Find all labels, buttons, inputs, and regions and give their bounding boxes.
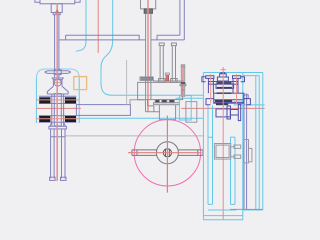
long cyan section line y=95.3 — [112, 94, 203, 96]
channel riser outer — [183, 0, 185, 40]
actuator stem lines — [146, 13, 151, 99]
hub circle — [156, 142, 178, 164]
post nut block 1 — [159, 79, 166, 83]
lower square box — [216, 109, 230, 117]
purple long vertical pair — [244, 93, 247, 209]
cyan bottom rail 1 — [208, 209, 237, 211]
right assembly machinery — [202, 73, 251, 121]
stem below hub — [55, 75, 59, 78]
side bolt x=183 (red) — [180, 65, 186, 98]
flywheel outer circle — [134, 120, 200, 186]
channel top line left — [66, 35, 140, 40]
body neck flange — [47, 93, 68, 95]
faint construction vertical x=126.6 — [126, 60, 128, 105]
bonnet neck — [53, 80, 62, 87]
cyan break-line spline A (x=86) — [76, 0, 86, 51]
flange rail under top flanges — [39, 103, 77, 105]
bolt head — [220, 74, 227, 77]
left stair bracket — [138, 100, 160, 112]
channel riser inner — [179, 0, 181, 35]
packing ball circle — [54, 79, 61, 86]
post nut block 2 — [171, 79, 178, 83]
valve bonnet box — [51, 4, 62, 13]
left post lines — [208, 78, 213, 93]
slider box outer — [214, 144, 230, 160]
valve top plate right ear — [75, 0, 80, 2]
cyan right box verticals — [256, 76, 259, 210]
dark nub row — [217, 87, 232, 89]
actuator collar dark — [144, 9, 152, 13]
long cyan line y=118.2 — [79, 117, 203, 119]
output cylinder — [159, 105, 175, 120]
black flange bottom-left — [39, 116, 50, 122]
cyan inner pair left — [208, 106, 213, 205]
main wide box — [214, 93, 244, 103]
lower thin plate — [154, 103, 180, 105]
cyan box left edge — [202, 73, 204, 220]
cyan mid vertical — [242, 73, 244, 220]
bolt block — [217, 77, 228, 81]
fork prong bottom — [234, 155, 241, 158]
handwheel bar — [45, 71, 70, 74]
channel top line right — [157, 35, 180, 40]
guide post 1 — [160, 46, 163, 81]
detail callout bubble around gate valve — [35, 78, 37, 123]
right red centerlines — [211, 67, 237, 220]
coupler plate tall — [244, 140, 249, 163]
valve red centerlines — [36, 3, 79, 181]
guide post 2 — [172, 46, 175, 81]
coupling fork and plate — [214, 140, 252, 163]
leg feet — [50, 177, 56, 180]
actuator stem red centerline pair — [147, 0, 149, 112]
left spoke bar — [132, 150, 157, 156]
black flange bottom-right — [65, 116, 76, 122]
valve top plate left ear — [35, 0, 40, 2]
pipe-to-body fitting box — [130, 100, 145, 105]
channel bottom line right — [151, 39, 184, 41]
dark dash row lower — [217, 92, 232, 94]
valve inner gate rect — [54, 94, 61, 126]
black flange top-right — [65, 97, 76, 103]
leg frame — [51, 129, 65, 178]
right post cap — [233, 76, 241, 79]
cyan box top edge — [203, 72, 262, 74]
red arrow in bonnet — [55, 9, 60, 14]
purple pair top cap — [244, 95, 249, 99]
valve body verticals — [52, 94, 64, 126]
packing gland trapezoid — [52, 78, 63, 80]
shaft bore circle — [163, 149, 171, 157]
dark bar under box — [216, 103, 228, 105]
fork stub lines — [231, 147, 234, 157]
cyan right edge — [262, 73, 264, 211]
link end bar — [238, 104, 240, 120]
channel bottom line left — [59, 39, 146, 41]
key slot lines — [166, 149, 170, 157]
black flange top-left — [39, 97, 50, 103]
bolt heads under body — [155, 100, 159, 103]
left corner bracket — [206, 99, 214, 105]
purple pipe rectangle from valve — [76, 105, 130, 116]
right post red — [236, 74, 238, 104]
flange rail above bottom flanges — [39, 115, 77, 117]
cyan bottom rail 3 — [203, 219, 242, 221]
flywheel red horizontal centerline — [128, 152, 202, 154]
flange top rail — [39, 95, 77, 97]
cyan tall slot rect — [231, 137, 236, 204]
valve upper stem lines — [55, 15, 59, 71]
red construction line x=98.25 — [97, 0, 99, 53]
flange red centerline bottom — [36, 118, 79, 120]
bolt tip — [221, 73, 225, 74]
ribbed flange hatching — [142, 77, 152, 80]
slider box inner — [216, 145, 229, 157]
box inner rail 2 — [214, 101, 244, 103]
flange rail below bottom flanges — [39, 121, 77, 123]
valve collar — [53, 13, 60, 15]
guide post 2 cap — [171, 43, 176, 46]
plate row 2 — [216, 84, 234, 88]
outer cyan box — [203, 73, 264, 220]
cyan right box bottom — [243, 209, 263, 211]
flange red centerline top — [36, 99, 79, 101]
long red pipe centerline y=108.4 — [36, 107, 264, 109]
left outer tab — [202, 77, 206, 82]
right post lines — [233, 78, 238, 93]
center bolt between posts (red) — [165, 73, 169, 81]
gray rect right of cylinder — [186, 102, 197, 123]
plate row 1 — [209, 82, 238, 85]
cyan horizontal y=104.9 — [234, 104, 265, 106]
left post cap — [206, 76, 214, 79]
cyan bottom rail 2 — [203, 215, 242, 217]
right spoke bar — [178, 150, 203, 156]
stem red pair — [56, 3, 58, 181]
guide post 1 cap — [159, 43, 164, 46]
cyan line y=98.3 — [176, 97, 204, 99]
lower flange bar — [49, 126, 67, 129]
link lines — [231, 110, 239, 116]
cyan break-line spline B (x=112.7) — [101, 0, 113, 95]
drive body — [138, 82, 183, 99]
flywheel red vertical centerline — [166, 116, 168, 193]
right outer tab — [241, 77, 245, 82]
handwheel hub — [54, 70, 61, 75]
dark hatch in wide box — [215, 100, 232, 102]
packing ball red cross — [55, 82, 62, 84]
valve top plate — [40, 0, 75, 4]
ribbed stem flange — [140, 77, 153, 80]
coupler plate tab — [249, 148, 252, 161]
orange detail square — [74, 77, 87, 90]
channel step left — [65, 35, 67, 40]
long gray line y=135.9 — [65, 135, 204, 137]
cyan rect around cylinder — [179, 96, 191, 120]
left post red — [210, 74, 212, 104]
center red vertical — [222, 67, 224, 220]
top plate line — [153, 80, 184, 82]
right corner bracket — [244, 99, 251, 105]
box inner rail 1 — [214, 99, 244, 101]
gray base line under right box — [230, 208, 263, 210]
body upper widening — [47, 86, 68, 94]
dark dash row upper — [217, 82, 232, 84]
actuator top box — [141, 0, 156, 9]
flange rect on box — [227, 106, 231, 119]
lower bonnet trapezoid — [50, 122, 65, 126]
fork prong top — [234, 145, 241, 148]
cyan right box inner top — [243, 75, 259, 77]
